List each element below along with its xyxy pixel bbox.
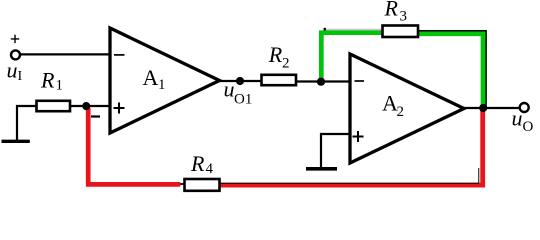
svg-text:u: u xyxy=(512,106,523,131)
svg-text:2: 2 xyxy=(397,104,405,120)
svg-text:A: A xyxy=(143,65,159,90)
svg-text:R: R xyxy=(190,151,205,176)
svg-text:R: R xyxy=(384,0,399,21)
svg-text:R: R xyxy=(40,68,55,93)
svg-text:O: O xyxy=(523,119,534,135)
svg-text:2: 2 xyxy=(282,55,290,71)
svg-text:4: 4 xyxy=(206,161,214,177)
svg-text:1: 1 xyxy=(158,77,166,93)
svg-text:1: 1 xyxy=(56,78,64,94)
svg-text:R: R xyxy=(268,42,283,67)
svg-text:u: u xyxy=(7,58,18,83)
svg-text:O1: O1 xyxy=(234,91,252,107)
svg-text:u: u xyxy=(224,77,235,102)
svg-text:3: 3 xyxy=(400,9,408,25)
svg-text:I: I xyxy=(18,69,23,84)
